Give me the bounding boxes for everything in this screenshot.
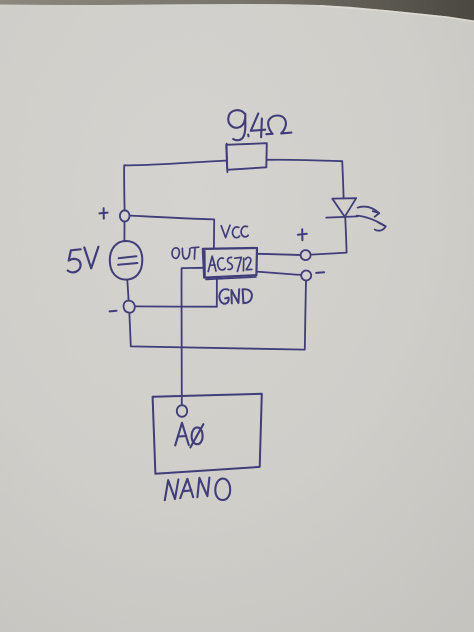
- label NANO: [165, 478, 230, 501]
- node - terminal (right): [301, 271, 311, 281]
- node + terminal (right): [301, 250, 311, 260]
- label GND: [219, 289, 252, 304]
- label OUT: [172, 247, 199, 259]
- wire source body down to - terminal: [127, 280, 128, 301]
- NANO box: [153, 394, 262, 474]
- wire source + terminal down to body: [123, 222, 125, 242]
- wire OUT pin left then down to A0: [181, 268, 203, 405]
- label 5V: [68, 247, 99, 273]
- wire resistor to top-right corner: [267, 160, 343, 161]
- LED D1 triangle: [332, 198, 356, 217]
- plus sign at right terminal: [298, 229, 307, 240]
- dark table edge band along top: [0, 0, 474, 21]
- label 9.4 ohm: [228, 110, 291, 140]
- wire source - terminal right to GND pin: [135, 305, 216, 307]
- LED cathode bar: [326, 216, 357, 217]
- paper edge highlight under band: [320, 6, 474, 21]
- resistor R (9.4 ohm): [226, 143, 267, 172]
- node A0 terminal: [177, 405, 187, 417]
- wire down to LED anode: [342, 161, 343, 198]
- minus sign at right terminal: [316, 271, 324, 274]
- GND pin wire down from box: [216, 278, 218, 307]
- wire - terminal down, bottom rail left, up to source minus: [129, 281, 306, 350]
- label VCC: [221, 225, 248, 237]
- wire from source + terminal up to top-left corner and right to resistor: [124, 161, 226, 211]
- wire VCC: + terminal right then down to ACS712: [131, 216, 215, 248]
- LED light arrow 1: [358, 207, 380, 217]
- node source + terminal: [120, 210, 130, 221]
- wire ACS712 right to - terminal: [257, 272, 301, 275]
- LED light arrow 2: [357, 216, 386, 231]
- minus sign at source: [110, 310, 117, 313]
- 5V source V1 body: [110, 241, 143, 280]
- plus sign at source: [99, 208, 107, 218]
- ACS712 box U1: [203, 248, 257, 279]
- wire LED cathode down and left to + terminal: [311, 217, 346, 255]
- node source - terminal: [124, 301, 135, 313]
- wire ACS712 right to + terminal: [257, 254, 301, 255]
- label A0: [175, 423, 203, 448]
- label ACS712: [208, 256, 252, 271]
